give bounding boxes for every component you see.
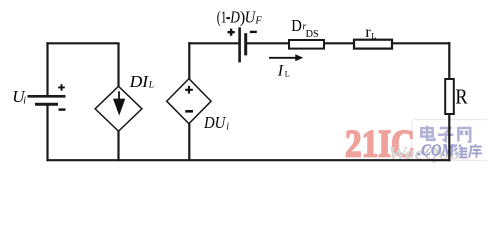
wire right vertical bottom xyxy=(448,114,450,161)
label (1-D)UF xyxy=(217,8,263,27)
DIL arrow xyxy=(113,91,125,115)
label DIL xyxy=(129,72,155,91)
svg-text:D: D xyxy=(291,16,302,35)
battery plus xyxy=(228,29,235,36)
current arrow IL xyxy=(269,54,303,61)
watermark char 电 xyxy=(421,126,434,140)
wire bottom xyxy=(46,159,450,161)
Ui polarity plus xyxy=(58,84,65,91)
svg-text:DI: DI xyxy=(129,72,150,91)
wire rL to corner xyxy=(392,42,450,44)
wire left vertical bottom xyxy=(46,105,48,162)
svg-text:R: R xyxy=(455,85,467,109)
watermark 21IC xyxy=(345,123,415,166)
watermark char 子 xyxy=(438,128,454,141)
watermark badge box xyxy=(412,120,487,161)
watermark char 维 xyxy=(454,145,467,158)
watermark char 网 xyxy=(458,128,470,142)
svg-text:i: i xyxy=(226,122,229,133)
resistor DrDS body xyxy=(289,40,324,49)
voltage source Ui battery symbol xyxy=(28,96,66,104)
svg-text:L: L xyxy=(148,81,154,91)
DUi polarity plus xyxy=(185,86,193,94)
svg-text:D: D xyxy=(229,8,239,27)
dependent current source DIL diamond xyxy=(95,86,142,131)
svg-text:L: L xyxy=(371,31,376,41)
svg-text:I: I xyxy=(277,62,284,79)
label IL xyxy=(277,62,290,79)
battery (1-D)UF plates xyxy=(240,27,246,62)
DUi polarity minus xyxy=(185,110,193,113)
wire battery to resistor DrDS xyxy=(247,42,290,44)
wire DrDS to rL xyxy=(324,42,354,44)
label R xyxy=(455,85,467,109)
wire diamond1 bottom lead xyxy=(117,131,119,161)
wire diamond1 top lead xyxy=(117,43,119,87)
wire left vertical top xyxy=(46,42,48,96)
wire top left loop xyxy=(46,42,119,44)
resistor rL body xyxy=(354,40,392,49)
label DUi xyxy=(203,113,229,133)
watermark Weeqoo script xyxy=(388,144,460,165)
svg-text:DU: DU xyxy=(203,113,227,132)
wire right vertical top xyxy=(448,42,450,79)
wire diamond2 bottom lead xyxy=(188,124,190,162)
resistor R body xyxy=(445,79,454,114)
svg-text:(1: (1 xyxy=(217,8,227,27)
watermark .COM xyxy=(418,141,456,160)
watermark char 库 xyxy=(469,144,482,158)
svg-text:DS: DS xyxy=(306,28,319,40)
Ui polarity minus xyxy=(59,108,66,110)
label Ui xyxy=(12,87,26,107)
wire top to battery xyxy=(188,42,239,44)
svg-text:i: i xyxy=(23,96,26,107)
battery minus xyxy=(250,31,257,33)
wire diamond2 top lead xyxy=(188,42,190,79)
label rL xyxy=(365,24,376,41)
svg-text:L: L xyxy=(285,70,290,79)
dependent voltage source DUi diamond xyxy=(167,79,211,124)
svg-text:F: F xyxy=(254,15,262,26)
label DrDS xyxy=(291,16,318,40)
